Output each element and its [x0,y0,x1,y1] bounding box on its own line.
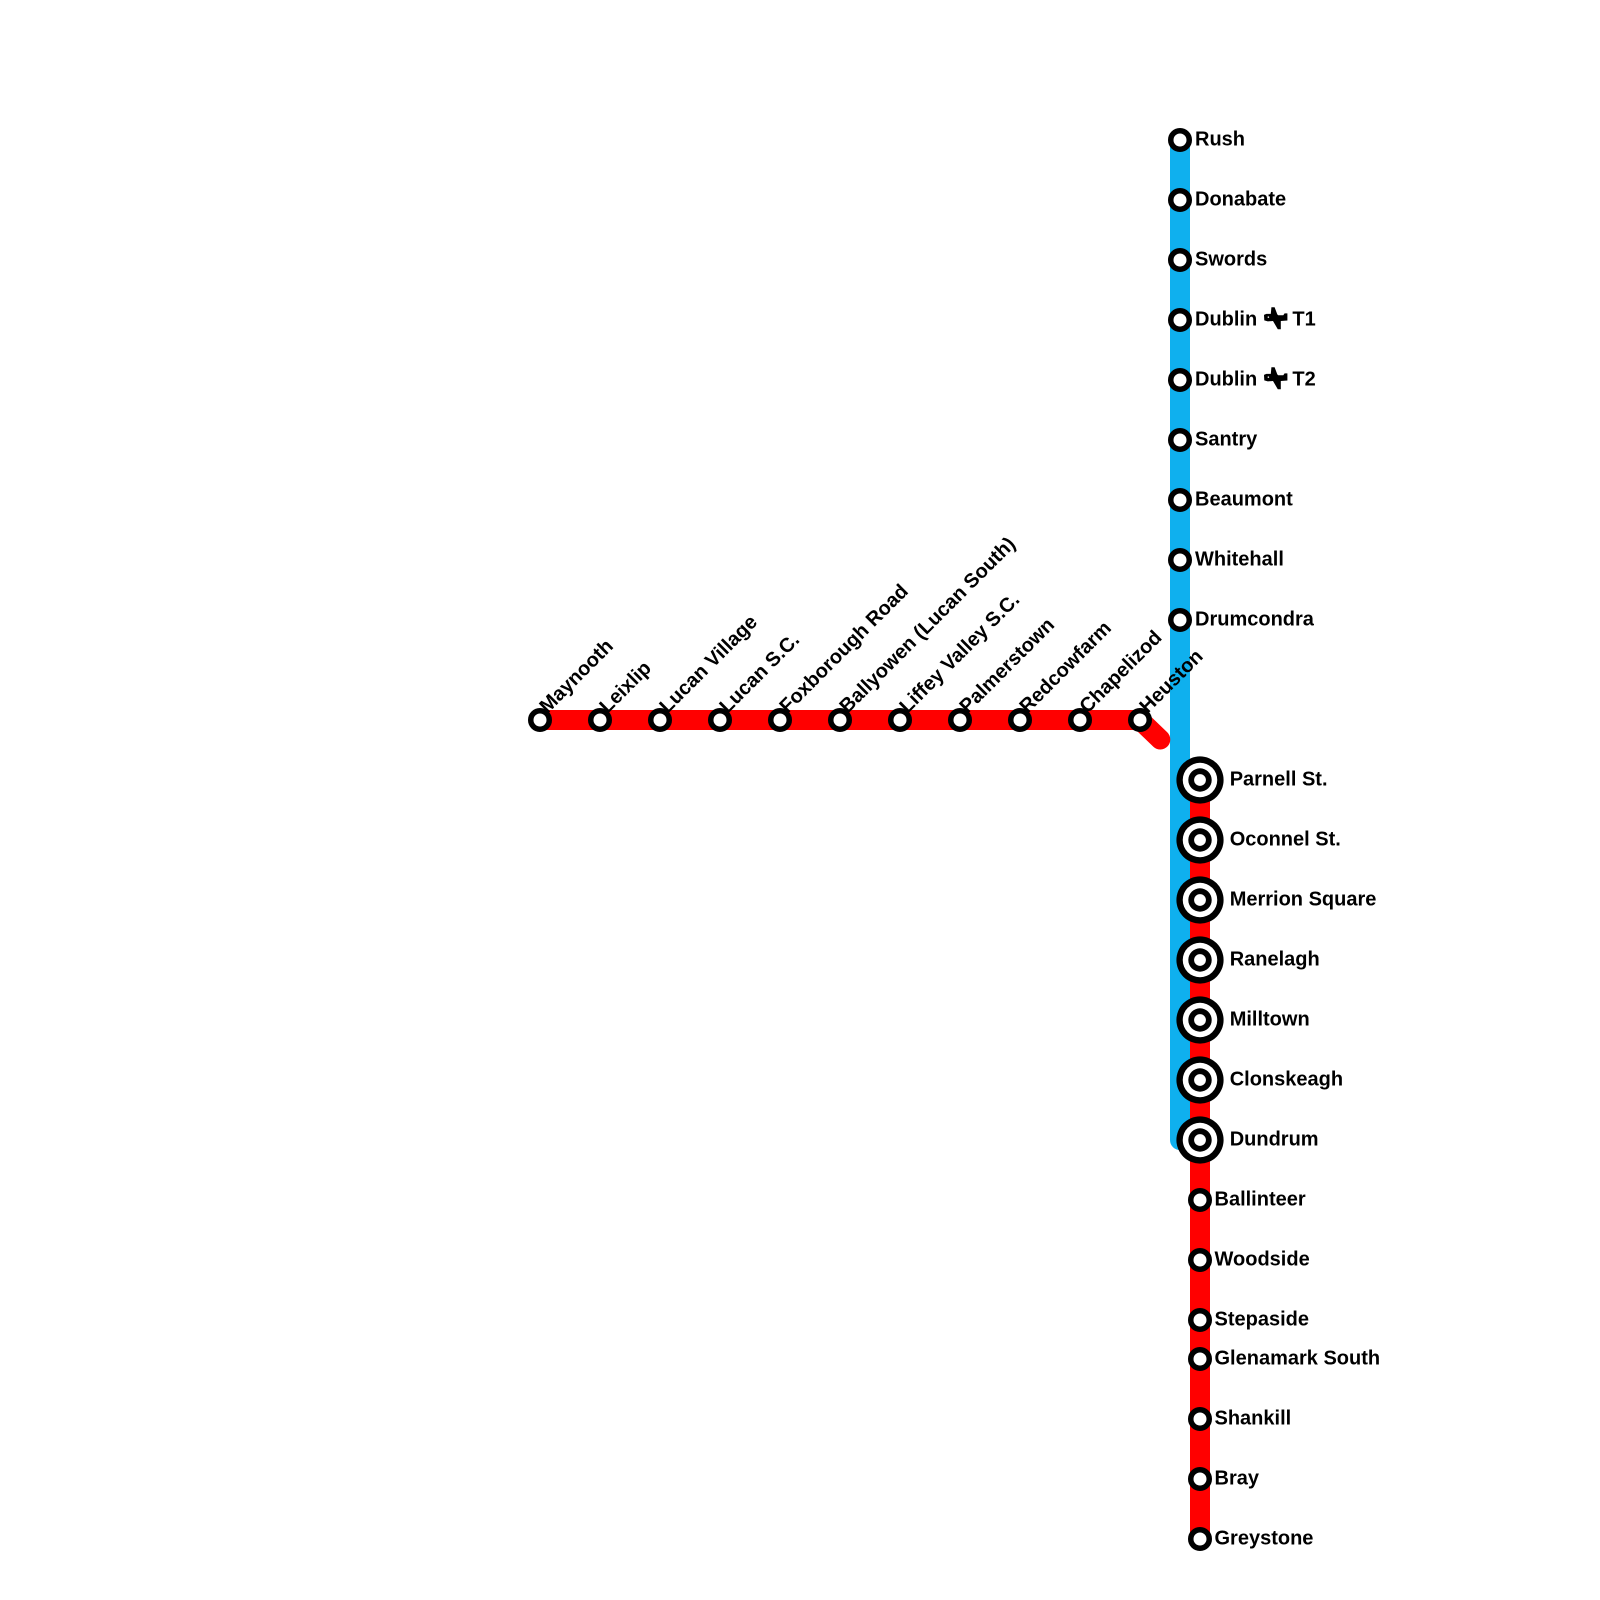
svg-text:T1: T1 [1292,309,1315,331]
svg-text:Rush: Rush [1195,129,1245,151]
svg-text:Drumcondra: Drumcondra [1195,609,1315,631]
svg-text:Clonskeagh: Clonskeagh [1230,1069,1343,1091]
svg-text:Shankill: Shankill [1215,1408,1292,1430]
svg-text:Beaumont: Beaumont [1195,489,1293,511]
svg-text:Dublin: Dublin [1195,369,1257,391]
svg-text:Merrion Square: Merrion Square [1230,889,1377,911]
svg-text:Stepaside: Stepaside [1215,1309,1309,1331]
svg-text:Leixlip: Leixlip [595,657,655,717]
svg-text:Donabate: Donabate [1195,189,1286,211]
svg-text:Dundrum: Dundrum [1230,1129,1319,1151]
svg-text:Ballinteer: Ballinteer [1215,1189,1306,1211]
svg-text:Ranelagh: Ranelagh [1230,949,1320,971]
svg-text:Oconnel St.: Oconnel St. [1230,829,1341,851]
svg-text:Milltown: Milltown [1230,1009,1310,1031]
svg-text:T2: T2 [1292,369,1315,391]
svg-text:Glenamark South: Glenamark South [1215,1348,1381,1370]
svg-text:Whitehall: Whitehall [1195,549,1284,571]
svg-text:Santry: Santry [1195,429,1258,451]
svg-text:Swords: Swords [1195,249,1267,271]
svg-text:Parnell St.: Parnell St. [1230,769,1328,791]
svg-text:Dublin: Dublin [1195,309,1257,331]
svg-text:Bray: Bray [1215,1468,1260,1490]
svg-text:Woodside: Woodside [1215,1249,1310,1271]
svg-text:Greystone: Greystone [1215,1528,1314,1550]
